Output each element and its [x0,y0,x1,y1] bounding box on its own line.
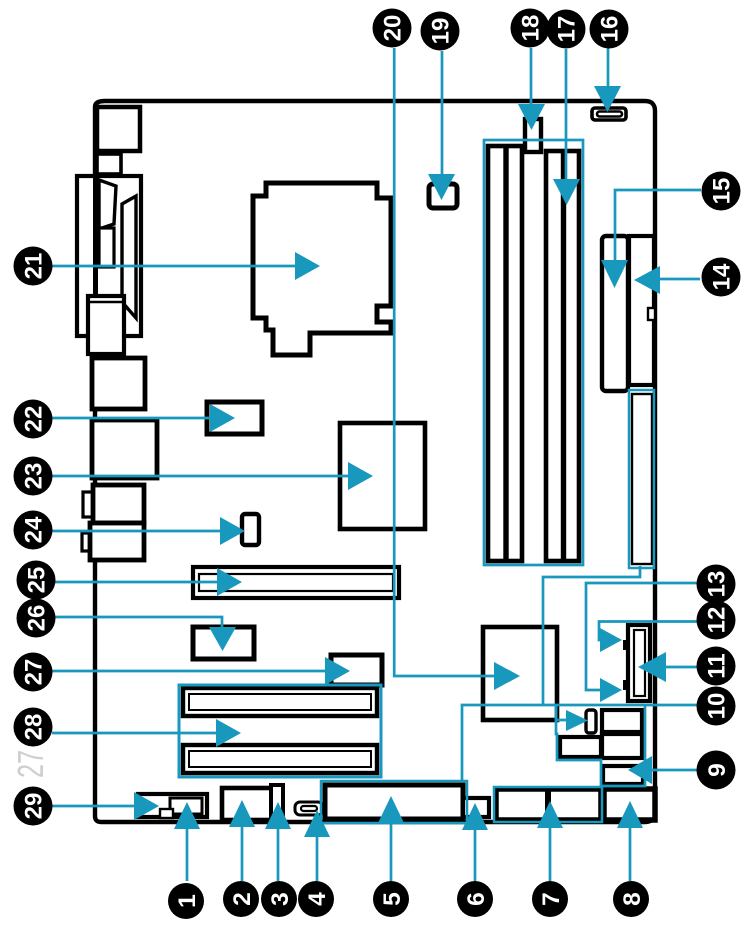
svg-text:7: 7 [538,892,565,906]
svg-text:13: 13 [704,571,731,598]
callout 13 [697,565,736,604]
component 24 box [242,514,259,545]
callout 27 [14,653,53,692]
pcie x16 slot (25) [193,567,399,598]
callout 9 [697,751,736,790]
io D-sub big block [77,176,141,336]
arrowhead 26 [209,627,236,651]
arrowhead 3 [265,802,291,829]
arrowhead 17 [553,179,580,205]
callout 17 [547,10,586,49]
svg-text:9: 9 [704,763,731,777]
callout 19 [421,12,460,51]
arrowhead 1 [174,802,200,829]
arrowhead 28 [216,719,241,747]
arrowhead 8 [617,801,643,828]
front panel tab upper [623,640,629,650]
callout 3 [261,881,297,917]
callout 21 [14,247,53,286]
northbridge chip (23) [340,423,425,529]
arrowhead 14 [634,266,660,294]
connector 16 inner pill [597,112,622,117]
callout 20 [373,9,412,48]
io LAN block [92,420,157,478]
arrowhead 19 [428,174,455,200]
svg-text:21: 21 [21,253,48,280]
wire 3 [277,826,280,881]
audio header connector (29/1) [138,794,207,817]
arrowhead 11 [638,652,666,682]
atx drop wire [543,566,640,705]
io mid rect inner line [90,301,122,303]
pcie x16 inner [199,574,393,591]
arrowhead 21 [295,252,320,280]
component 27 box [331,655,382,685]
svg-text:8: 8 [619,892,646,906]
arrowhead 10 branch [566,710,588,731]
atx power connector black [632,394,652,564]
usb header box C [560,737,601,757]
wire 26 [55,617,222,629]
audio header inner [170,798,202,814]
callout 28 [14,708,53,747]
io USB block [92,358,145,409]
pci slot A (28) [183,688,377,716]
wire 15 [615,190,701,263]
wire 21 [52,265,298,268]
svg-text:2: 2 [229,892,256,906]
arrowhead 25 [217,568,242,596]
connector 14 FDD [629,236,654,385]
wire 25 [55,581,220,584]
io VGA D-sub tall [122,196,136,318]
svg-text:4: 4 [304,892,331,906]
front panel header inner [634,630,645,696]
arrowhead 12 [600,628,622,652]
arrowhead 22 [210,404,235,432]
arrowhead 6 [462,803,488,830]
wire 1 [186,826,189,881]
svg-text:16: 16 [597,16,624,43]
svg-text:23: 23 [21,463,48,490]
callout 29 [14,787,53,826]
wire 2 [241,824,244,881]
dimm slot 2 [546,151,579,561]
connector 2 box [222,788,272,820]
wire 5 [390,820,393,881]
io small block [97,154,121,174]
component 26 box [193,627,254,659]
dimm teal outline [484,140,583,565]
dimm latch block (18) [525,119,541,152]
io mid rect across [88,296,124,354]
callout 15 [702,172,741,211]
pci slot B (28) [183,745,377,773]
callout 18 [511,9,550,48]
io audio jack upper tab [83,492,93,517]
wire 10 branch [556,705,568,720]
callout 7 [532,881,568,917]
callout 10 [697,687,736,726]
arrowhead 23 [348,462,373,490]
arrowhead 13 [600,678,622,702]
header box D (9) [603,766,643,784]
arrowhead 9 [628,756,652,784]
callout 22 [14,400,53,439]
usb header box B [602,734,642,758]
callout 6 [457,881,493,917]
svg-text:29: 29 [21,793,48,820]
wire 24 [52,530,223,533]
wire 16 [607,48,610,95]
header cluster teal outline [556,706,645,786]
io board edge line through block [93,176,98,336]
callout 14 [702,258,741,297]
callout 5 [373,881,409,917]
connector 14 side notch [648,308,655,320]
callout 2 [223,881,259,917]
io serial D-sub upper [99,180,116,229]
io audio jack lower tab [82,533,90,551]
wire 10 [462,705,697,782]
motherboard outline [95,101,655,822]
connector 7 box [496,789,601,820]
atx teal outline [629,390,654,568]
component 19 box [429,184,457,208]
connector 15 IDE [602,236,628,391]
svg-text:27: 27 [10,750,51,778]
wire 29 [52,805,137,808]
arrowhead 16 [594,86,621,112]
wire 19 [441,51,444,179]
front panel tab lower [623,680,629,690]
arrowhead 27 [325,657,350,685]
wire 9 [650,769,697,772]
svg-text:11: 11 [704,653,731,678]
connector 5 teal outline [321,781,467,823]
callout 4 [298,881,334,917]
wire 13 [586,583,697,690]
callout 24 [14,511,53,550]
svg-text:18: 18 [518,15,545,42]
wire 8 [629,825,632,881]
callout 16 [590,10,629,49]
arrowhead 24 [220,517,245,545]
svg-text:25: 25 [24,567,51,594]
callout 25 [17,561,56,600]
dimm slot 1 center line [503,146,508,561]
connector 8 box [604,789,655,820]
cpu socket U1 [253,183,391,355]
front panel header outer (11,12,13) [628,625,650,701]
svg-text:12: 12 [704,607,731,634]
callout 1 [168,883,204,919]
dimm slot 2 center line [561,151,566,561]
wire 7 [549,825,552,881]
arrowhead 29 [134,792,159,820]
connector 7 divider [545,789,551,820]
svg-text:24: 24 [21,516,48,543]
io audio jack upper [93,485,144,523]
io PS/2 port block [97,107,140,151]
svg-text:3: 3 [267,892,294,906]
callout 26 [17,599,56,638]
svg-text:10: 10 [704,693,731,720]
connector 6 box [463,798,489,817]
svg-text:6: 6 [463,892,490,906]
connector 4 inner line [301,806,317,811]
wire 28 [52,732,219,735]
svg-text:17: 17 [554,16,581,43]
connector 4 pill [295,802,323,815]
pci slot A inner [189,694,371,710]
svg-text:20: 20 [380,15,407,42]
io serial D-sub lower [99,228,114,267]
svg-text:27: 27 [21,659,48,686]
callout 11 [697,647,736,686]
dimm slot 1 [488,146,522,561]
tiny jumper box (10) [586,710,596,733]
wire 18 [530,48,533,108]
svg-text:22: 22 [21,406,48,433]
arrowhead 4 [304,810,330,837]
pci slot B inner [189,751,371,767]
arrowhead 7 [537,801,563,828]
callout 23 [14,457,53,496]
callout 8 [613,881,649,917]
arrowhead 2 [229,800,255,827]
arrowhead 5 [378,796,404,823]
svg-text:1: 1 [174,894,201,908]
callout 12 [697,601,736,640]
connector 3 bar [271,785,283,818]
io audio jack lower [90,523,144,560]
audio header notch [160,809,173,818]
wire 6 [474,827,477,881]
svg-text:19: 19 [428,18,455,45]
southbridge chip (20) [483,627,557,720]
connector 7 teal outline [494,787,602,822]
component 22 box [207,402,262,434]
wire 11 [664,666,697,669]
arrowhead 15 [601,260,628,288]
svg-text:26: 26 [24,605,51,632]
usb header box A [602,710,642,732]
wire 4 [316,834,319,881]
svg-text:15: 15 [709,178,736,205]
wire 23 [52,475,351,478]
wire 14 [658,278,700,281]
wire 17 [565,49,568,185]
arrowhead 18 [518,104,545,130]
wire 22 [52,417,213,420]
wire 20 [394,48,496,676]
wire 12 [599,622,697,641]
pci slots teal outline [179,685,381,777]
svg-text:5: 5 [379,892,406,906]
svg-text:28: 28 [21,714,48,741]
wire 27 [52,670,328,673]
arrowhead 20 [494,662,520,690]
connector 16 rounded [592,108,626,120]
svg-text:14: 14 [709,263,736,290]
connector 5 box [325,785,463,819]
